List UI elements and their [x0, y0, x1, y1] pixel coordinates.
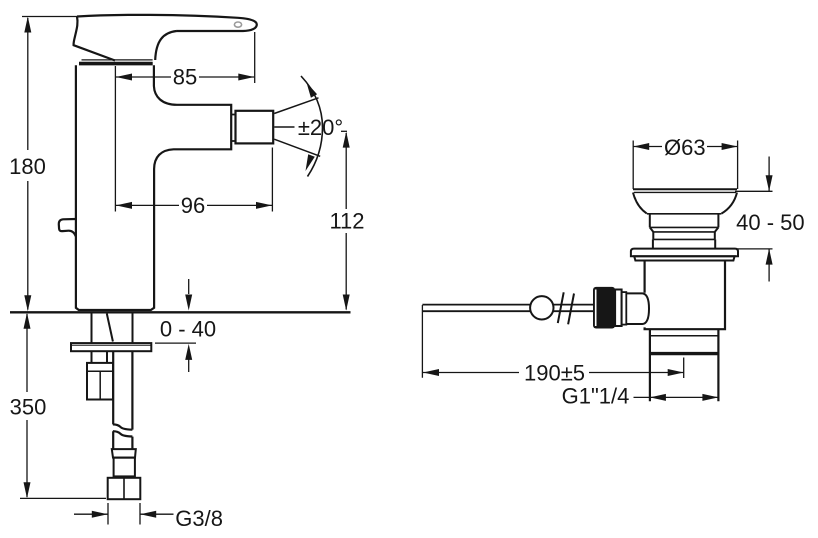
drain body — [645, 261, 725, 330]
svg-text:±20°: ±20° — [298, 115, 343, 140]
dimension 350 — [10, 313, 106, 499]
svg-text:350: 350 — [10, 395, 47, 420]
drain flange upper plate — [631, 249, 738, 257]
hose lower section — [113, 431, 132, 449]
arc arrowhead upper — [307, 83, 318, 98]
svg-text:180: 180 — [9, 154, 46, 179]
threaded stud below deck — [92, 314, 108, 363]
hose end nut G3/8 — [108, 478, 141, 499]
dimension 40-50 — [734, 157, 805, 282]
drain flange lower plate — [634, 256, 734, 260]
mounting nut on stud — [87, 363, 113, 400]
faucet handle base cap band — [79, 62, 153, 66]
svg-text:Ø63: Ø63 — [664, 135, 706, 160]
centre axis line of faucet column — [114, 66, 116, 212]
faucet body column and spout arm outline — [76, 31, 231, 310]
hose fitting flare — [112, 449, 136, 458]
dimension 112 — [329, 131, 364, 310]
svg-text:G1"1/4: G1"1/4 — [562, 384, 630, 409]
dimension 0-40 — [155, 279, 216, 372]
drain plug taper sides — [633, 193, 647, 214]
mounting flange washer — [71, 343, 151, 351]
dimension Ø63 — [633, 135, 737, 189]
gland rings — [615, 290, 622, 327]
faucet handle base thin line — [82, 59, 153, 61]
dimension 85 — [116, 32, 255, 90]
faucet lever handle — [74, 15, 257, 61]
dimension 96 — [116, 148, 272, 219]
dimension 180 — [9, 17, 46, 312]
svg-text:0 - 40: 0 - 40 — [160, 317, 216, 342]
packing nut (black) — [593, 287, 615, 329]
arc arrowhead lower — [306, 154, 315, 171]
dimension 180 reference line top — [22, 16, 77, 18]
drain plug steps — [647, 214, 721, 249]
svg-text:112: 112 — [329, 209, 364, 234]
dimension G3/8 — [74, 503, 223, 531]
drain plug top rim — [633, 188, 737, 190]
svg-text:190±5: 190±5 — [524, 361, 585, 386]
aerator neck — [231, 115, 235, 142]
rod break slashes — [558, 292, 574, 324]
dimension G1"1/4 — [562, 384, 719, 409]
small lever tab on column left — [59, 219, 76, 237]
svg-text:G3/8: G3/8 — [175, 506, 223, 531]
supply hose right edge upper — [132, 314, 134, 344]
pop-up rod — [422, 305, 593, 312]
dimension 190±5 — [422, 305, 683, 386]
aerator block — [236, 111, 274, 144]
spray swivel arc — [301, 76, 323, 177]
supply hose crossing diagonal — [107, 314, 113, 342]
drain tailpiece — [650, 329, 719, 401]
hose break squiggle — [113, 424, 132, 429]
mounting deck line — [10, 311, 351, 313]
svg-text:40 - 50: 40 - 50 — [736, 210, 805, 235]
rod ball joint — [530, 296, 553, 319]
flexible hose below flange — [113, 351, 132, 429]
hose fitting body — [114, 458, 135, 477]
svg-text:96: 96 — [181, 193, 205, 218]
spray angle lines — [274, 98, 318, 114]
rod entry boss — [626, 293, 649, 324]
svg-text:85: 85 — [173, 65, 197, 90]
